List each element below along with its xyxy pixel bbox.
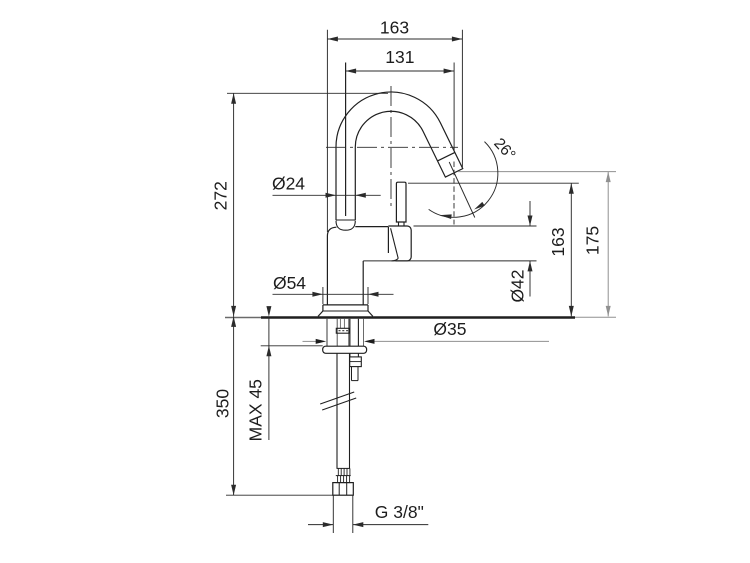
stud below washer bbox=[349, 353, 351, 357]
shank nut block bbox=[336, 328, 349, 333]
faucet spout curved tube bbox=[336, 92, 463, 220]
svg-text:Ø54: Ø54 bbox=[273, 273, 306, 293]
base collar (O54) bbox=[323, 304, 368, 306]
svg-text:163: 163 bbox=[548, 227, 568, 256]
dim O42 right bbox=[414, 225, 537, 227]
svg-text:MAX 45: MAX 45 bbox=[245, 379, 265, 441]
dim 272 left bbox=[227, 92, 388, 94]
spout tube base joint bbox=[336, 219, 355, 221]
dim 175 right bbox=[458, 171, 616, 173]
spout vertical centerline bbox=[390, 86, 392, 210]
hose end ferrule bbox=[337, 467, 351, 469]
spout aerator joint line bbox=[438, 152, 455, 160]
threaded stud bbox=[349, 319, 351, 346]
pipe break symbol bbox=[320, 392, 354, 404]
svg-text:131: 131 bbox=[385, 47, 414, 67]
dim 350 left bbox=[233, 316, 235, 495]
G3/8 nut bbox=[333, 483, 354, 496]
faucet body column bbox=[327, 227, 336, 236]
dim O24 bbox=[273, 194, 381, 196]
svg-text:175: 175 bbox=[582, 226, 602, 255]
countertop line bbox=[225, 317, 261, 319]
svg-text:Ø42: Ø42 bbox=[507, 269, 527, 302]
stud nut bbox=[350, 357, 362, 367]
nozzle vertical dashed reference bbox=[453, 162, 455, 225]
svg-text:Ø24: Ø24 bbox=[272, 174, 305, 194]
handle stem bbox=[399, 222, 405, 226]
base skirt bbox=[318, 311, 323, 316]
dim 131 bbox=[345, 63, 347, 217]
dim 163 top bbox=[326, 30, 328, 232]
dim O35 bbox=[303, 340, 317, 342]
cartridge housing bbox=[388, 226, 411, 261]
dim O54 bbox=[322, 287, 324, 304]
supply hose bbox=[336, 353, 338, 468]
dim MAX 45 bbox=[261, 345, 323, 347]
spout horizontal centerline bbox=[326, 146, 458, 148]
housing tilted face edge bbox=[391, 228, 399, 258]
counter hole edges bbox=[326, 319, 328, 346]
svg-text:Ø35: Ø35 bbox=[433, 319, 466, 339]
svg-text:272: 272 bbox=[211, 181, 231, 210]
svg-text:350: 350 bbox=[212, 389, 232, 418]
dim 26 deg angle bbox=[449, 162, 475, 218]
svg-text:163: 163 bbox=[380, 17, 409, 37]
dim 163 right bbox=[408, 182, 579, 184]
stud end bbox=[351, 367, 353, 381]
dim G 3/8 bbox=[332, 495, 334, 533]
mounting washer bbox=[323, 346, 367, 353]
svg-text:G 3/8": G 3/8" bbox=[375, 502, 424, 522]
threaded shank below counter bbox=[336, 319, 338, 346]
handle lever bbox=[396, 182, 406, 222]
